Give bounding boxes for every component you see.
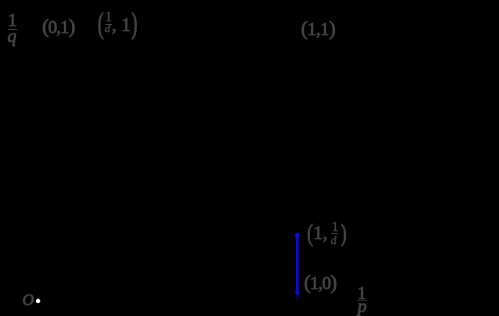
label (1/d, 1) : left stretched paren: [98, 9, 104, 38]
label (1/d, 1) : right stretched paren: [132, 9, 138, 38]
origin label O: [22, 293, 34, 309]
label (1, 1/d) : left stretched paren: [307, 221, 313, 245]
label (1/d, 1) : inner fraction bar: [105, 24, 112, 25]
label (1, 1/d) : 1 and comma: [313, 224, 327, 243]
unit square edge x=1 (black, invisible): [296, 41, 298, 301]
blue endpoint dot at (1, 1/d): [295, 233, 300, 238]
y-axis label fraction 1/q : numerator 1: [8, 11, 17, 29]
label (1, 1/d) : inner fraction denominator d: [331, 236, 337, 248]
x-axis label fraction 1/p : numerator 1: [357, 284, 366, 302]
label (0,1): [42, 17, 74, 37]
label (1, 1/d) : right stretched paren: [341, 221, 347, 245]
blue segment from (1,0) to (1,1/d): [296, 235, 299, 293]
y-axis (black, invisible on background): [37, 20, 39, 301]
fraction 1/p denominator p: [358, 297, 367, 315]
label (1/d, 1) : inner fraction denominator d: [105, 24, 111, 35]
label (1, 1/d) : inner fraction numerator 1: [332, 220, 339, 234]
fraction 1/q denominator q: [8, 27, 17, 45]
blue endpoint dot at (1,0): [295, 290, 299, 294]
label (1, 1/d) : inner fraction bar: [331, 233, 338, 234]
dark tail of blue segment near axis: [296, 293, 298, 299]
label (1/d, 1) : inner fraction numerator 1: [105, 10, 112, 24]
white origin marker dot: [36, 299, 40, 303]
unit square edge y=1 (black, invisible): [38, 40, 297, 42]
fraction 1/q bar: [8, 29, 17, 31]
black marker over blue at axis corner: [294, 299, 300, 305]
label (1,0): [304, 273, 336, 293]
label (1,1): [301, 19, 335, 39]
label (1/d, 1) : comma, thin space, 1: [112, 16, 131, 35]
x-axis (black, invisible on background): [38, 300, 370, 302]
fraction 1/p bar: [357, 300, 366, 301]
